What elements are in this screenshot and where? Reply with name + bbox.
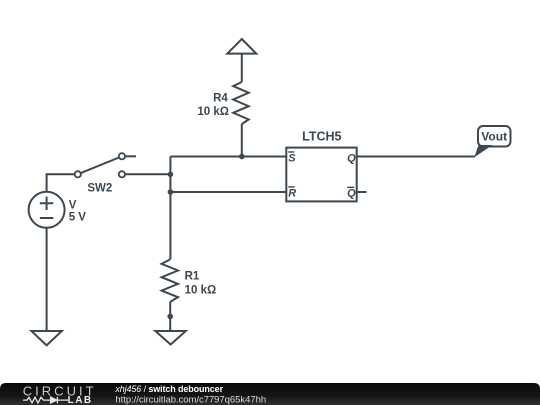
svg-text:V: V — [69, 200, 77, 212]
wire vertical node bus — [169, 157, 171, 260]
svg-text:R: R — [288, 188, 296, 200]
svg-text:xhj456 / switch debouncer: xhj456 / switch debouncer — [114, 384, 223, 394]
switch SW2 lever — [81, 158, 119, 174]
switch SW2 terminal circles — [75, 153, 125, 177]
svg-text:Q: Q — [347, 188, 356, 200]
svg-text:5 V: 5 V — [69, 212, 87, 224]
pin Qbar overbar — [347, 186, 354, 188]
svg-text:SW2: SW2 — [87, 183, 112, 195]
power flag VDD — [227, 39, 256, 54]
junction node at R1/ground — [167, 314, 173, 320]
voltage source V circle — [29, 192, 65, 228]
voltage source plus sign — [40, 197, 53, 210]
junction node at R row/bus — [168, 189, 174, 195]
ground (left, source) — [31, 331, 61, 345]
wire Qbar stub — [357, 191, 367, 193]
Vout flag tail — [474, 145, 492, 157]
Vout flag box — [478, 126, 511, 147]
svg-text:R4: R4 — [213, 92, 228, 104]
svg-text:LTCH5: LTCH5 — [302, 129, 341, 143]
wire switch to bus — [125, 173, 170, 175]
svg-text:Q: Q — [347, 152, 356, 164]
resistor R4 — [233, 82, 249, 124]
wire source to ground — [46, 228, 48, 331]
junction node at R4/S wire — [239, 154, 245, 160]
svg-text:Vout: Vout — [481, 130, 507, 144]
pin R overbar — [288, 186, 295, 188]
voltage source minus sign — [40, 217, 53, 219]
svg-text:http://circuitlab.com/c7797q65: http://circuitlab.com/c7797q65k47hh — [115, 394, 266, 405]
ground (right, R1) — [155, 331, 185, 345]
wire switch throw stub — [125, 155, 136, 157]
svg-text:10 kΩ: 10 kΩ — [185, 285, 217, 297]
CircuitLab logo resistor-diode symbol — [23, 397, 68, 403]
wire R row horizontal — [170, 191, 286, 193]
svg-text:S: S — [288, 153, 296, 165]
wire VDD to R4 — [241, 54, 243, 82]
junction node at switch/bus — [168, 172, 174, 178]
wire R1 to ground — [169, 302, 171, 331]
pin S overbar — [288, 151, 294, 153]
wire S row horizontal — [170, 156, 286, 158]
wire Q output to Vout — [357, 156, 475, 158]
footer bar — [0, 383, 540, 405]
svg-text:10 kΩ: 10 kΩ — [197, 106, 229, 118]
svg-text:R1: R1 — [185, 271, 200, 283]
latch U1 LTCH5 body — [286, 148, 356, 202]
svg-text:LAB: LAB — [68, 395, 93, 405]
wire R4 bottom lead — [241, 124, 243, 157]
wire switch to source corner — [47, 174, 75, 192]
resistor R1 — [162, 259, 178, 301]
